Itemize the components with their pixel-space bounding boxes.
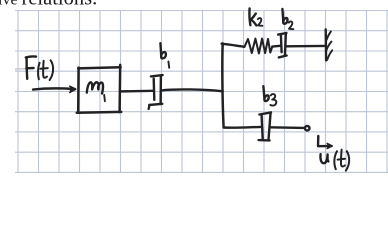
spring k2 <box>244 39 272 54</box>
svg-text:ive: ive <box>0 0 18 9</box>
mass m1 box <box>77 65 121 113</box>
label k2 <box>249 8 262 25</box>
label v(t) <box>320 150 349 171</box>
output node terminal <box>305 126 310 131</box>
velocity arrow <box>318 136 332 149</box>
force arrow <box>33 86 76 92</box>
wire: mass to damper b1 <box>120 90 153 93</box>
wire: spring to damper b2 <box>272 45 280 48</box>
stray pencil mark <box>15 68 27 70</box>
wire: junction to damper b3 <box>224 126 261 129</box>
label b1 <box>160 43 169 68</box>
damper b1 <box>149 75 163 109</box>
damper b2 <box>278 33 286 57</box>
wire: b1 to junction <box>162 89 223 91</box>
label F(t) <box>26 56 53 80</box>
label b2 <box>282 9 293 29</box>
junction vertical wire <box>222 43 223 127</box>
label b3 <box>263 86 276 105</box>
wall anchor <box>326 29 333 60</box>
damper b3 <box>259 112 271 140</box>
mass label m1 <box>87 82 105 101</box>
wire: b2 to wall <box>286 45 324 48</box>
wire: b3 to output node <box>270 126 304 129</box>
graph paper grid <box>15 11 388 173</box>
svg-text:relations.: relations. <box>22 0 98 10</box>
wire: junction to spring k2 <box>222 44 245 47</box>
